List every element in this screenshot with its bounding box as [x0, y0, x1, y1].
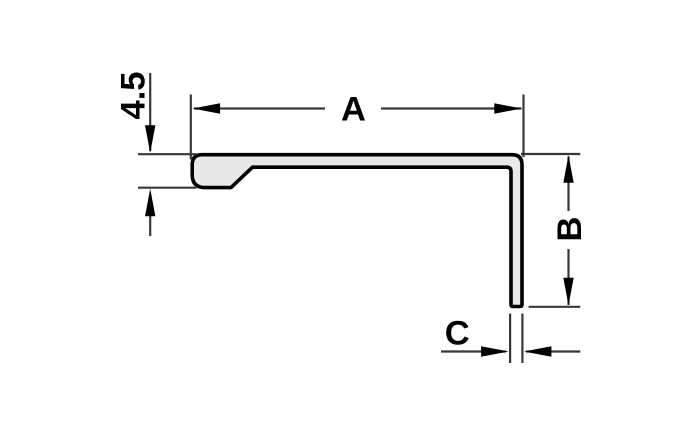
svg-text:C: C: [445, 315, 470, 353]
svg-text:B: B: [551, 217, 589, 242]
svg-text:4.5: 4.5: [115, 72, 153, 120]
svg-text:A: A: [341, 91, 366, 129]
